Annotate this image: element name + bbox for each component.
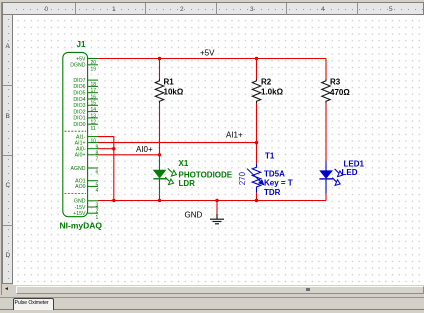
wire R1 top branch: [159, 59, 161, 80]
svg-text:12: 12: [91, 120, 97, 126]
wire ground rail (J1 pin 3 to LED column): [98, 200, 326, 202]
resistor R2: [252, 79, 260, 103]
svg-text:AI0+: AI0+: [75, 153, 86, 159]
net label AI1+: [226, 131, 243, 140]
svg-text:R1: R1: [164, 78, 175, 87]
svg-text:DIO4: DIO4: [73, 97, 85, 103]
node junction X1/ground rail: [158, 199, 161, 202]
svg-text:18: 18: [91, 82, 97, 88]
svg-text:Key = T: Key = T: [264, 179, 293, 188]
wire R3 bottom to LED1: [325, 103, 327, 162]
svg-text:T1: T1: [265, 152, 275, 161]
net label GND: [185, 210, 203, 219]
svg-text:R2: R2: [261, 78, 272, 87]
svg-text:DGND: DGND: [70, 63, 86, 69]
net label AI0+: [136, 145, 153, 154]
R3 labels: [330, 78, 350, 97]
wire LED1 bottom to ground rail corner: [325, 194, 327, 201]
node junction +5V/R1: [158, 57, 161, 60]
svg-text:TD5A: TD5A: [264, 169, 285, 178]
svg-text:PHOTODIODE: PHOTODIODE: [179, 170, 233, 179]
wire R1 bottom to AI0+ node: [159, 103, 161, 155]
svg-text:14: 14: [91, 107, 97, 113]
X1 labels: [179, 159, 233, 188]
svg-text:1.0kΩ: 1.0kΩ: [261, 88, 284, 97]
svg-text:+15V: +15V: [73, 211, 86, 217]
wire R2 bottom to T1: [256, 103, 258, 164]
svg-text:DIO3: DIO3: [73, 103, 85, 109]
svg-text:8: 8: [96, 150, 99, 156]
svg-text:10kΩ: 10kΩ: [164, 88, 184, 97]
svg-text:X1: X1: [179, 159, 189, 168]
node junction AI- to ground rail: [112, 199, 115, 202]
R1 labels: [164, 78, 184, 97]
svg-text:+5V: +5V: [76, 56, 86, 62]
svg-text:19: 19: [91, 67, 97, 73]
svg-text:AGND: AGND: [71, 166, 86, 172]
svg-text:AI0-: AI0-: [76, 147, 86, 153]
svg-text:6: 6: [96, 170, 99, 176]
connector J1 body: [63, 52, 88, 216]
svg-text:DIO0: DIO0: [73, 122, 85, 128]
svg-text:13: 13: [91, 113, 97, 119]
svg-text:R3: R3: [330, 78, 341, 87]
wire AI1- (pin 10) to AI0- vertical: [98, 137, 114, 201]
svg-text:16: 16: [91, 94, 97, 100]
J1 pin stubs pins 20 to 1: [88, 59, 98, 214]
net label +5V: [200, 48, 215, 57]
node junction AI1-/AI0-: [112, 147, 115, 150]
svg-text:3: 3: [96, 203, 99, 209]
ground symbol: [210, 214, 224, 224]
wire ground tap: [216, 201, 218, 214]
wire +5V rail: [98, 58, 326, 60]
wire R2 top branch: [256, 59, 258, 80]
svg-text:DIO5: DIO5: [73, 91, 85, 97]
svg-text:AI0+: AI0+: [136, 145, 153, 154]
svg-text:-15V: -15V: [75, 205, 86, 211]
svg-text:4: 4: [96, 188, 99, 194]
thermistor T1: [247, 164, 264, 193]
node junction T1/ground rail: [255, 199, 258, 202]
svg-text:270: 270: [238, 171, 247, 185]
svg-text:AI1+: AI1+: [226, 131, 243, 140]
T1 refdes label: [265, 152, 275, 161]
svg-text:15: 15: [91, 101, 97, 107]
svg-text:+5V: +5V: [200, 48, 215, 57]
wire AI0- (pin 8) stub: [98, 148, 114, 150]
svg-text:LDR: LDR: [179, 179, 196, 188]
node junction AI1+/R2/T1: [255, 141, 258, 144]
svg-text:LED: LED: [342, 168, 358, 177]
T1 value labels: [264, 169, 293, 196]
J1 refdes label: [77, 40, 86, 49]
svg-text:7: 7: [96, 157, 99, 163]
LED LED1: [319, 162, 342, 194]
photodiode X1: [153, 155, 176, 195]
svg-text:17: 17: [91, 88, 97, 94]
svg-text:DIO1: DIO1: [73, 116, 85, 122]
node junction ground tap: [215, 199, 218, 202]
wire AI1+ (J1 pin 9 to R2/T1 column): [98, 142, 257, 144]
svg-text:2: 2: [96, 209, 99, 215]
svg-text:DIO2: DIO2: [73, 109, 85, 115]
svg-text:J1: J1: [77, 40, 86, 49]
svg-text:20: 20: [91, 60, 97, 66]
node junction +5V/R2: [255, 57, 258, 60]
resistor R3: [322, 79, 330, 103]
svg-text:DIO7: DIO7: [73, 78, 85, 84]
svg-text:DIO6: DIO6: [73, 84, 85, 90]
svg-text:GND: GND: [185, 210, 203, 219]
J1 value label NI-myDAQ: [60, 221, 103, 231]
svg-text:TDR: TDR: [264, 188, 281, 197]
wire R3 top branch (corner): [325, 59, 327, 80]
J1 pin numbers: [91, 60, 99, 221]
R2 labels: [261, 78, 284, 97]
svg-text:GND: GND: [74, 199, 86, 205]
svg-text:9: 9: [96, 144, 99, 150]
svg-text:AO0: AO0: [75, 184, 85, 190]
svg-text:11: 11: [91, 126, 96, 132]
wire AI0+ (J1 pin 7 to R1/X1 node): [98, 154, 160, 156]
wire T1 bottom to ground rail: [256, 193, 258, 201]
svg-text:470Ω: 470Ω: [330, 88, 350, 97]
svg-text:AI1+: AI1+: [75, 140, 86, 146]
svg-text:NI-myDAQ: NI-myDAQ: [60, 221, 103, 231]
wire X1 bottom to ground rail: [159, 194, 161, 200]
resistor R1: [155, 79, 163, 103]
J1 pin name labels: [70, 56, 86, 217]
node junction AI0+/R1/X1: [158, 153, 161, 156]
T1 rotated 270 label: [238, 171, 247, 185]
LED1 labels: [342, 159, 365, 177]
